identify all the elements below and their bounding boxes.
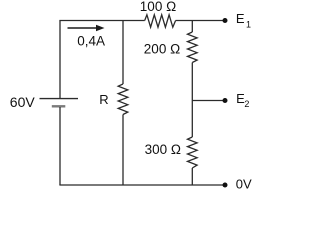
resistor 100 ohm — [145, 15, 176, 27]
resistor 300 ohm — [188, 137, 198, 168]
battery V1 60V long plate — [40, 98, 79, 100]
wire left vertical upper — [59, 21, 61, 99]
svg-text:0V: 0V — [236, 176, 252, 191]
svg-text:300 Ω: 300 Ω — [145, 142, 181, 157]
svg-text:60V: 60V — [10, 94, 36, 110]
svg-text:1: 1 — [246, 20, 251, 30]
wire middle branch upper — [122, 21, 124, 85]
wire right branch bottom — [191, 168, 193, 185]
resistor 200 ohm — [188, 32, 198, 63]
wire left vertical lower — [59, 107, 61, 185]
battery V1 60V short plate — [52, 105, 66, 107]
wire middle branch lower — [122, 115, 124, 186]
resistor R — [118, 84, 128, 115]
current arrow 0,4A — [68, 27, 98, 29]
svg-text:E: E — [236, 11, 245, 26]
node E1 terminal dot — [223, 18, 228, 23]
svg-text:0,4A: 0,4A — [77, 33, 105, 48]
node 0V terminal dot — [223, 183, 228, 188]
svg-text:200 Ω: 200 Ω — [144, 41, 180, 56]
svg-text:2: 2 — [244, 99, 249, 109]
wire top-left horizontal — [59, 20, 144, 22]
wire E2 stub — [192, 100, 223, 102]
wire right branch top — [191, 21, 193, 33]
svg-text:R: R — [99, 92, 108, 107]
node E2 terminal dot — [223, 98, 228, 103]
wire bottom horizontal — [59, 184, 223, 186]
svg-text:100 Ω: 100 Ω — [140, 0, 176, 14]
wire top-right horizontal — [176, 20, 223, 22]
wire right branch middle — [191, 63, 193, 138]
